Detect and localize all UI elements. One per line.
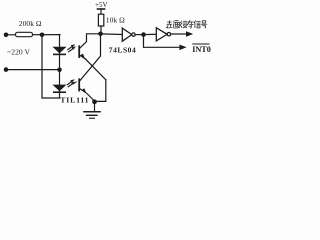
svg-text:200k Ω: 200k Ω [19, 19, 42, 28]
svg-text:INT0: INT0 [192, 45, 211, 54]
svg-text:10k Ω: 10k Ω [106, 16, 125, 25]
svg-text:~220 V: ~220 V [7, 48, 30, 57]
svg-text:74LS04: 74LS04 [109, 45, 136, 54]
svg-text:+5V: +5V [95, 1, 108, 9]
svg-text:TIL111: TIL111 [60, 95, 89, 104]
